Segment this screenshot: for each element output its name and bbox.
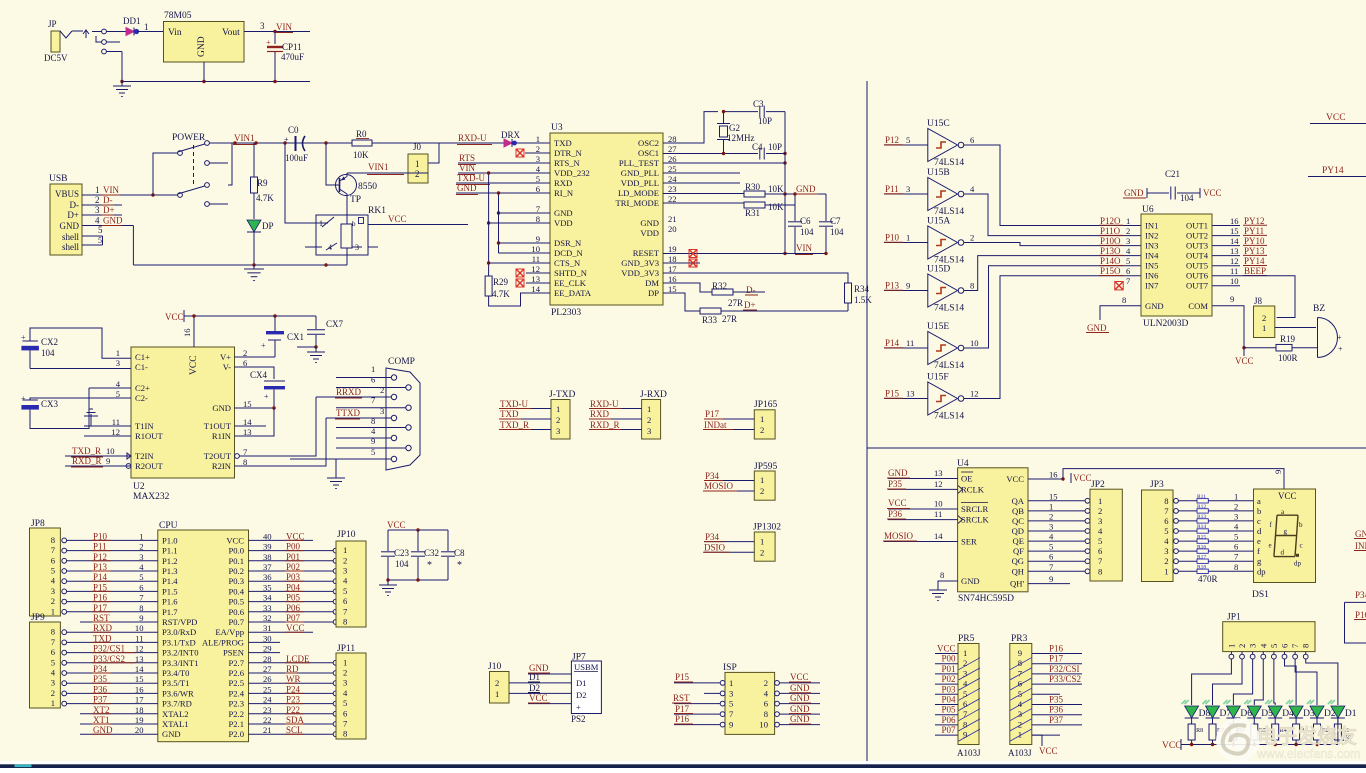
- U4 gnd wire: [938, 581, 958, 590]
- wire jack3 down: [121, 52, 123, 82]
- ISP left wires: [674, 682, 720, 684]
- cap bank bottom rail: [388, 579, 448, 581]
- svg-text:DP: DP: [262, 221, 274, 231]
- LED DP: [247, 220, 261, 232]
- svg-text:5: 5: [51, 657, 55, 667]
- svg-text:GND: GND: [212, 403, 231, 413]
- svg-text:1: 1: [647, 404, 651, 414]
- svg-text:11: 11: [934, 509, 942, 519]
- svg-text:6: 6: [1164, 516, 1169, 526]
- U3 row13 X: [516, 279, 524, 287]
- svg-text:U15C: U15C: [927, 119, 950, 129]
- svg-text:USBM: USBM: [574, 662, 599, 672]
- svg-text:P3.6/WR: P3.6/WR: [162, 688, 194, 698]
- svg-text:GND: GND: [60, 221, 80, 231]
- svg-text:PY11: PY11: [1244, 226, 1264, 236]
- svg-text:VDD_3V3: VDD_3V3: [621, 268, 659, 278]
- svg-text:CX2: CX2: [41, 337, 58, 347]
- switch throw stubs: [205, 161, 210, 166]
- svg-text:e: e: [1269, 542, 1272, 550]
- svg-text:C1-: C1-: [135, 362, 148, 372]
- svg-text:8: 8: [764, 709, 768, 719]
- wire U15E out: [964, 266, 1141, 348]
- capacitor C23: [387, 530, 389, 551]
- PR3 vcc wire: [1032, 735, 1042, 746]
- svg-text:4: 4: [970, 184, 975, 194]
- svg-text:6: 6: [371, 375, 376, 385]
- svg-text:J8: J8: [1254, 296, 1263, 306]
- svg-text:RXD: RXD: [554, 178, 572, 188]
- resistor R32: [712, 289, 733, 295]
- bottom navy bar: [0, 764, 1366, 768]
- svg-text:GND: GND: [554, 208, 573, 218]
- svg-text:7: 7: [343, 606, 348, 616]
- svg-text:1: 1: [51, 698, 55, 708]
- svg-text:JP11: JP11: [337, 644, 355, 654]
- svg-text:D-: D-: [70, 200, 80, 210]
- svg-text:9: 9: [1273, 470, 1283, 474]
- svg-text:CX7: CX7: [326, 319, 344, 329]
- inverter U15E 74LS14: [928, 332, 958, 365]
- svg-text:10: 10: [934, 499, 943, 509]
- watermark logo: [1216, 718, 1361, 762]
- wire GND_PLL: [663, 172, 740, 174]
- wire BEEP to J8: [1240, 276, 1295, 318]
- usb pin2 wire: [82, 204, 122, 206]
- ground cx7: [315, 347, 317, 352]
- svg-text:GND: GND: [961, 576, 980, 586]
- resistor network R11-R18: [1178, 500, 1197, 502]
- svg-text:19: 19: [668, 244, 677, 254]
- wire emitter up: [346, 173, 348, 177]
- svg-text:R16: R16: [1197, 544, 1206, 550]
- svg-text:D+: D+: [103, 205, 115, 215]
- svg-text:D-: D-: [746, 285, 756, 295]
- wire U15B out: [964, 194, 1141, 236]
- svg-text:SRCLR: SRCLR: [961, 504, 988, 514]
- svg-text:C6: C6: [800, 216, 811, 226]
- svg-text:5: 5: [963, 689, 967, 699]
- svg-text:6: 6: [1234, 542, 1239, 552]
- svg-text:J10: J10: [488, 662, 501, 672]
- svg-text:104: 104: [395, 559, 409, 569]
- svg-text:LD_MODE: LD_MODE: [618, 188, 659, 198]
- wire switch left bracket: [153, 153, 178, 195]
- svg-text:PR3: PR3: [1011, 634, 1028, 644]
- svg-text:IN5: IN5: [1145, 261, 1158, 271]
- wire R0 to U3 pin1: [372, 142, 550, 144]
- svg-text:8550: 8550: [358, 182, 377, 192]
- svg-text:5: 5: [729, 699, 733, 709]
- svg-text:D+: D+: [744, 300, 756, 310]
- svg-text:P12: P12: [885, 135, 899, 145]
- svg-text:3: 3: [556, 426, 560, 436]
- J-TXD wires: [500, 408, 551, 410]
- resistor R33: [700, 308, 721, 314]
- svg-text:V-: V-: [223, 362, 231, 372]
- svg-text:D2: D2: [529, 683, 540, 693]
- svg-text:27R: 27R: [722, 314, 737, 324]
- svg-text:8: 8: [1301, 644, 1311, 648]
- svg-text:JP2: JP2: [1091, 480, 1105, 490]
- svg-text:C1+: C1+: [135, 352, 150, 362]
- svg-text:9: 9: [1018, 648, 1022, 658]
- svg-text:P2.6: P2.6: [228, 668, 244, 678]
- svg-text:2: 2: [647, 415, 651, 425]
- wire RK1 bottom: [346, 248, 348, 265]
- svg-text:VDD_232: VDD_232: [554, 168, 590, 178]
- svg-text:P2.0: P2.0: [228, 729, 244, 739]
- svg-text:3: 3: [51, 678, 55, 688]
- LED D5: [1247, 706, 1261, 718]
- svg-text:1: 1: [343, 657, 347, 667]
- svg-text:3: 3: [1248, 644, 1258, 648]
- svg-text:RRXD: RRXD: [336, 387, 362, 397]
- svg-text:JP3: JP3: [1150, 480, 1164, 490]
- svg-text:5: 5: [1049, 542, 1053, 552]
- resistor network PR5: [958, 644, 979, 745]
- svg-text:15: 15: [1230, 226, 1239, 236]
- svg-text:OUT2: OUT2: [1186, 231, 1208, 241]
- svg-text:QA: QA: [1012, 496, 1025, 506]
- connector J-TXD: [551, 400, 570, 440]
- svg-text:GND: GND: [103, 216, 123, 226]
- svg-text:XTAL1: XTAL1: [162, 719, 189, 729]
- svg-text:PLL_TEST: PLL_TEST: [619, 158, 660, 168]
- svg-text:J0: J0: [413, 142, 422, 152]
- svg-text:7: 7: [1290, 643, 1300, 648]
- svg-text:QH': QH': [1010, 579, 1024, 589]
- svg-text:3: 3: [1164, 546, 1168, 556]
- svg-text:P0.7: P0.7: [228, 617, 244, 627]
- svg-text:23: 23: [668, 184, 677, 194]
- svg-text:P2.7: P2.7: [228, 658, 244, 668]
- svg-text:8: 8: [343, 729, 347, 739]
- svg-text:C0: C0: [288, 125, 299, 135]
- svg-text:15: 15: [1049, 491, 1058, 501]
- svg-text:R1IN: R1IN: [212, 431, 232, 441]
- svg-text:P0.0: P0.0: [228, 546, 244, 556]
- wire R1IN row: [235, 408, 275, 436]
- svg-text:USB: USB: [49, 174, 67, 184]
- svg-text:RXD: RXD: [590, 409, 610, 419]
- svg-text:VDD: VDD: [640, 228, 659, 238]
- PR5 wires+labels: [935, 653, 958, 655]
- svg-text:7: 7: [51, 545, 56, 555]
- svg-text:VCC: VCC: [1203, 188, 1222, 198]
- svg-text:V+: V+: [220, 352, 231, 362]
- svg-text:8: 8: [1164, 496, 1168, 506]
- wire RRXD: [316, 396, 391, 398]
- capacitor C6: [794, 205, 796, 221]
- svg-text:TXD_R: TXD_R: [500, 420, 529, 430]
- U4 vcc16 wire: [1028, 478, 1063, 480]
- svg-text:OUT4: OUT4: [1186, 251, 1209, 261]
- svg-text:P15: P15: [675, 672, 690, 682]
- svg-text:R14: R14: [1197, 524, 1206, 530]
- svg-text:21: 21: [668, 214, 677, 224]
- svg-text:6: 6: [1126, 266, 1131, 276]
- svg-text:4: 4: [1098, 526, 1103, 536]
- svg-text:C3: C3: [753, 99, 764, 109]
- svg-text:9: 9: [906, 281, 910, 291]
- svg-text:C23: C23: [394, 548, 410, 558]
- wire switch throw2 up: [228, 143, 232, 185]
- svg-text:16: 16: [182, 328, 192, 337]
- svg-text:OUT3: OUT3: [1186, 241, 1208, 251]
- svg-text:P37: P37: [1049, 715, 1064, 725]
- svg-text:78M05: 78M05: [164, 11, 192, 21]
- wire R2OUT row: [65, 465, 131, 467]
- svg-text:4: 4: [963, 679, 968, 689]
- svg-text:P3.0/RxD: P3.0/RxD: [162, 627, 196, 637]
- wire Vout to VIN: [244, 31, 310, 33]
- svg-text:PL2303: PL2303: [551, 308, 581, 318]
- JP1 to LED wires: [1192, 659, 1232, 705]
- connector JP11: [336, 653, 366, 739]
- svg-text:P2.4: P2.4: [228, 688, 244, 698]
- svg-text:8: 8: [343, 617, 347, 627]
- svg-text:e: e: [1257, 536, 1261, 546]
- ISP right wires: [779, 682, 820, 684]
- svg-text:5: 5: [1164, 526, 1168, 536]
- svg-text:R12: R12: [1197, 504, 1206, 510]
- svg-text:GND: GND: [197, 36, 207, 57]
- svg-text:R2OUT: R2OUT: [135, 461, 163, 471]
- svg-text:1: 1: [1126, 216, 1130, 226]
- svg-text:3: 3: [343, 678, 347, 688]
- svg-text:C32: C32: [424, 548, 439, 558]
- svg-text:P07: P07: [941, 725, 956, 735]
- svg-text:OSC2: OSC2: [638, 138, 659, 148]
- svg-text:1: 1: [963, 648, 967, 658]
- wire T2IN row: [65, 455, 131, 457]
- LED D6: [1226, 706, 1240, 718]
- resistor R19: [1244, 347, 1276, 349]
- wire DP R33: [663, 293, 700, 311]
- svg-text:3: 3: [343, 566, 347, 576]
- ground T1IN: [84, 425, 131, 427]
- svg-text:P17: P17: [1049, 654, 1064, 664]
- svg-text:2: 2: [764, 678, 768, 688]
- wire DD1 to U1: [138, 31, 164, 33]
- IC U3 PL2303: [550, 133, 663, 305]
- svg-text:2: 2: [1018, 719, 1022, 729]
- svg-text:470uF: 470uF: [281, 52, 304, 62]
- svg-text:P0.4: P0.4: [228, 586, 244, 596]
- input wire U15C: [884, 144, 928, 146]
- connector JP (DC jack): [51, 31, 60, 52]
- svg-text:1: 1: [343, 545, 347, 555]
- svg-text:2: 2: [760, 548, 764, 558]
- wire J0 pin2: [352, 172, 428, 174]
- svg-text:P15: P15: [885, 389, 900, 399]
- svg-text:TXD: TXD: [554, 138, 572, 148]
- svg-text:6: 6: [970, 135, 975, 145]
- svg-text:QH: QH: [1012, 566, 1024, 576]
- wire J0 pin1 up: [428, 143, 439, 163]
- svg-text:R18: R18: [1197, 565, 1206, 571]
- resistor R29: [485, 276, 492, 296]
- crystal G2: [720, 126, 728, 137]
- svg-text:T2IN: T2IN: [135, 451, 154, 461]
- svg-text:U15A: U15A: [927, 217, 950, 227]
- svg-text:2: 2: [51, 596, 55, 606]
- svg-text:c: c: [1300, 542, 1303, 550]
- svg-text:R8: R8: [1196, 728, 1203, 734]
- wire VIN row: [458, 172, 550, 174]
- svg-text:dp: dp: [1257, 566, 1266, 576]
- svg-text:4: 4: [1049, 532, 1054, 542]
- svg-text:10: 10: [1230, 276, 1239, 286]
- LED vcc rail: [1181, 744, 1338, 746]
- svg-text:74LS14: 74LS14: [934, 412, 964, 422]
- svg-text:1: 1: [415, 159, 420, 169]
- svg-text:+: +: [21, 394, 26, 403]
- svg-text:CX1: CX1: [287, 332, 304, 342]
- svg-text:6: 6: [51, 555, 56, 565]
- svg-text:P10O: P10O: [1100, 236, 1121, 246]
- svg-text:9: 9: [1230, 294, 1234, 304]
- svg-text:RXD_R: RXD_R: [590, 420, 620, 430]
- svg-text:+: +: [261, 341, 266, 350]
- svg-text:P11: P11: [885, 184, 899, 194]
- svg-text:3: 3: [1098, 516, 1102, 526]
- svg-text:A103J: A103J: [957, 748, 981, 758]
- svg-text:1: 1: [1049, 501, 1053, 511]
- wire base: [326, 143, 340, 185]
- svg-text:IN3: IN3: [1145, 241, 1158, 251]
- svg-text:D-: D-: [103, 195, 113, 205]
- svg-text:SN74HC595D: SN74HC595D: [958, 594, 1014, 604]
- usb pin4 wire: [82, 225, 133, 227]
- inverter U15B 74LS14: [928, 178, 958, 211]
- svg-text:U15D: U15D: [927, 265, 950, 275]
- svg-text:11: 11: [1230, 266, 1238, 276]
- capacitor CX1: [274, 316, 276, 331]
- resistor R34: [845, 283, 852, 303]
- svg-text:DD1: DD1: [123, 16, 141, 26]
- svg-text:27: 27: [668, 144, 677, 154]
- svg-text:DC5V: DC5V: [44, 53, 68, 63]
- svg-text:P3.4/T0: P3.4/T0: [162, 668, 189, 678]
- svg-text:P36: P36: [888, 509, 903, 519]
- svg-text:OUT7: OUT7: [1186, 281, 1209, 291]
- svg-text:P34: P34: [705, 532, 720, 542]
- svg-text:16: 16: [1230, 216, 1239, 226]
- svg-text:10: 10: [970, 338, 979, 348]
- U4 Q wires: [1028, 500, 1085, 502]
- diode DD1: [126, 28, 134, 36]
- connector JP1302: [754, 532, 775, 561]
- wire U3 dcd10: [499, 252, 551, 254]
- svg-text:8: 8: [1018, 658, 1022, 668]
- resistor R30: [744, 191, 765, 197]
- wire DM R32: [663, 283, 712, 292]
- svg-text:U4: U4: [957, 459, 969, 469]
- capacitor C8: [447, 530, 449, 551]
- svg-text:5: 5: [98, 225, 103, 235]
- svg-text:U2: U2: [133, 482, 145, 492]
- svg-text:VCC: VCC: [226, 535, 244, 545]
- wire GND row: [456, 192, 550, 194]
- connector JP165: [754, 410, 775, 439]
- svg-text:C4: C4: [752, 142, 763, 152]
- IC CPU: [158, 530, 249, 742]
- svg-text:COMP: COMP: [388, 357, 415, 367]
- svg-text:VIN: VIN: [103, 185, 119, 195]
- svg-text:*: *: [427, 560, 432, 571]
- svg-text:P0.2: P0.2: [228, 566, 244, 576]
- svg-text:J-TXD: J-TXD: [549, 390, 576, 400]
- svg-text:GND: GND: [1145, 301, 1164, 311]
- svg-text:11: 11: [906, 338, 914, 348]
- wire C0 node to RK1: [285, 143, 316, 223]
- svg-text:b: b: [352, 220, 356, 228]
- svg-text:1: 1: [116, 348, 120, 358]
- svg-text:5: 5: [343, 586, 347, 596]
- svg-text:3: 3: [729, 688, 733, 698]
- resistor network PR3: [1010, 644, 1032, 745]
- wire R2IN row: [235, 418, 327, 466]
- svg-text:R30: R30: [745, 182, 761, 192]
- svg-text:P14O: P14O: [1100, 256, 1121, 266]
- ground: [121, 82, 123, 87]
- svg-text:P1.6: P1.6: [162, 597, 178, 607]
- svg-text:VCC: VCC: [189, 355, 199, 375]
- svg-text:MOSIO: MOSIO: [884, 531, 914, 541]
- svg-text:5: 5: [51, 566, 55, 576]
- svg-text:3: 3: [1234, 511, 1238, 521]
- svg-text:4: 4: [51, 668, 56, 678]
- svg-text:PY10: PY10: [1244, 236, 1265, 246]
- svg-text:IN2: IN2: [1145, 231, 1158, 241]
- ground main: [253, 265, 255, 269]
- svg-text:1: 1: [729, 678, 733, 688]
- svg-text:100R: 100R: [1278, 353, 1298, 363]
- input wire U15E: [884, 347, 928, 349]
- svg-text:OUT5: OUT5: [1186, 261, 1208, 271]
- svg-text:P35: P35: [888, 479, 903, 489]
- svg-text:EA/Vpp: EA/Vpp: [215, 627, 244, 637]
- wire OSC2: [663, 112, 718, 143]
- svg-text:R33: R33: [702, 315, 718, 325]
- svg-text:R32: R32: [712, 281, 727, 291]
- svg-text:R9: R9: [257, 178, 268, 188]
- svg-text:P17: P17: [705, 409, 720, 419]
- svg-text:P05: P05: [941, 705, 956, 715]
- svg-text:3: 3: [355, 243, 359, 252]
- transistor Q1 8550: [336, 175, 357, 196]
- LED D4: [1268, 706, 1282, 718]
- svg-text:7: 7: [1234, 552, 1239, 562]
- svg-text:TRI_MODE: TRI_MODE: [616, 198, 659, 208]
- svg-text:1: 1: [1018, 730, 1022, 740]
- svg-text:R1OUT: R1OUT: [135, 431, 163, 441]
- node vertical V2 gnd: [498, 193, 500, 253]
- wire collector down: [346, 194, 348, 215]
- svg-text:12: 12: [970, 389, 979, 399]
- usb pin5 wire: [82, 235, 103, 237]
- svg-text:IND: IND: [1355, 541, 1366, 551]
- svg-text:MAX232: MAX232: [133, 492, 170, 502]
- svg-text:P1.3: P1.3: [162, 566, 178, 576]
- svg-text:f: f: [1257, 546, 1260, 556]
- svg-text:4.7K: 4.7K: [256, 193, 274, 203]
- svg-text:QE: QE: [1013, 536, 1024, 546]
- svg-text:shell: shell: [62, 232, 79, 242]
- svg-text:10: 10: [759, 720, 768, 730]
